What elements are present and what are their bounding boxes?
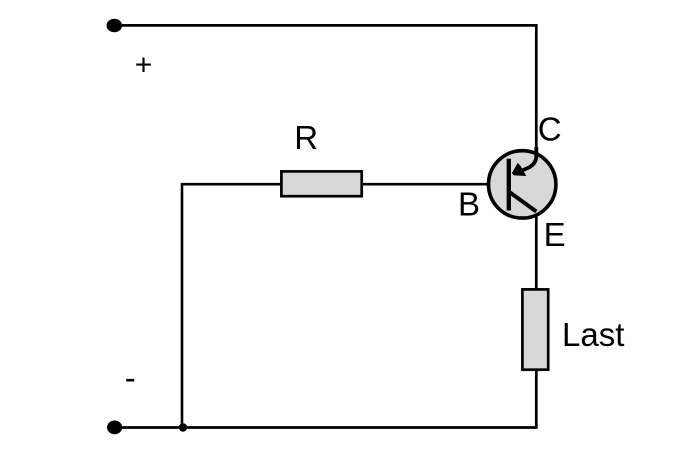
svg-text:R: R [294, 119, 318, 156]
svg-text:Last: Last [562, 316, 624, 353]
svg-text:C: C [538, 110, 562, 147]
svg-text:E: E [544, 216, 566, 253]
svg-text:+: + [135, 48, 153, 81]
svg-text:B: B [458, 186, 480, 223]
svg-text:-: - [125, 359, 136, 396]
